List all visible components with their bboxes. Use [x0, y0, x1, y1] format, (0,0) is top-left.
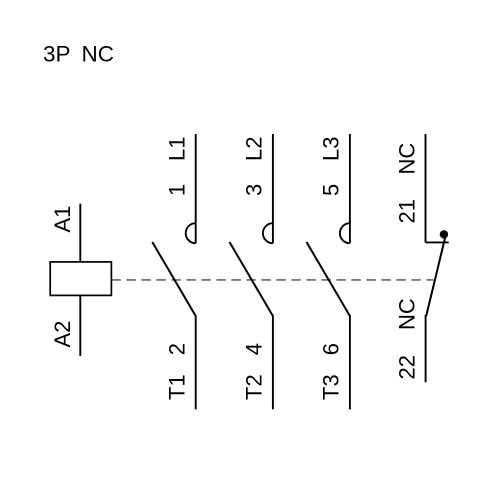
pole 1 : fixed contact arc	[186, 223, 196, 243]
svg-text:A1: A1	[50, 206, 75, 233]
svg-text:4: 4	[242, 343, 267, 355]
NC aux : stop bar	[426, 241, 449, 243]
svg-text:21: 21	[394, 199, 419, 223]
svg-text:22: 22	[394, 355, 419, 379]
pole 3 : fixed contact arc	[340, 223, 350, 243]
svg-text:L3: L3	[319, 137, 344, 161]
pole 1 : wire terminal 2/T1	[195, 315, 197, 409]
svg-text:L1: L1	[165, 137, 190, 161]
mechanical linkage dashed line	[111, 279, 433, 281]
svg-text:L2: L2	[242, 137, 267, 161]
pole 3 : wire terminal 5/L3	[349, 134, 351, 243]
svg-text:3: 3	[242, 184, 267, 196]
svg-text:NC: NC	[82, 42, 115, 67]
wire coil terminal A1	[79, 204, 81, 262]
svg-text:6: 6	[319, 343, 344, 355]
pole 2 : fixed contact arc	[263, 223, 273, 243]
NC aux : moving contact arm	[426, 234, 446, 316]
pole 2 : wire terminal 4/T2	[272, 315, 274, 409]
pole 3 : wire terminal 6/T3	[349, 315, 351, 409]
wire coil terminal A2	[79, 295, 81, 356]
pole 1 : moving contact arm	[152, 242, 195, 316]
pole 2 : moving contact arm	[230, 242, 273, 316]
NC aux : wire terminal 21	[425, 134, 427, 242]
svg-text:T1: T1	[165, 374, 190, 400]
title 3P NC	[43, 42, 114, 67]
pole 3 : moving contact arm	[307, 242, 350, 316]
coil K1	[50, 262, 111, 296]
NC aux : wire terminal 22	[425, 315, 427, 382]
svg-text:3P: 3P	[43, 42, 71, 67]
svg-text:2: 2	[165, 343, 190, 355]
pole 1 : wire terminal 1/L1	[195, 134, 197, 243]
svg-text:NC: NC	[394, 143, 419, 175]
svg-text:NC: NC	[394, 298, 419, 330]
svg-text:A2: A2	[50, 321, 75, 348]
svg-text:1: 1	[165, 184, 190, 196]
pole 2 : wire terminal 3/L2	[272, 134, 274, 243]
NC aux : contact dot	[440, 230, 448, 238]
svg-text:5: 5	[319, 184, 344, 196]
svg-text:T2: T2	[242, 374, 267, 400]
svg-text:T3: T3	[319, 374, 344, 400]
